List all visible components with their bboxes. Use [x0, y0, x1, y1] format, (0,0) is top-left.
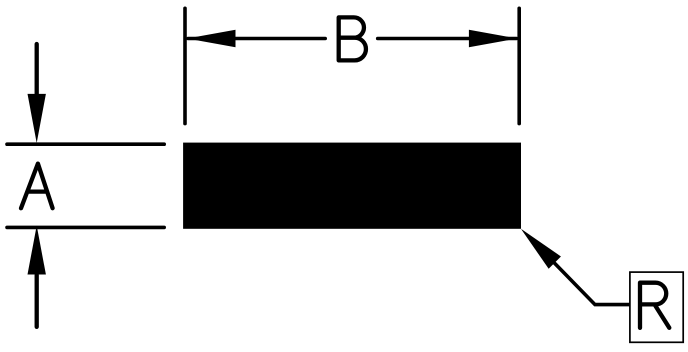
dimension A: top extension line	[7, 142, 164, 146]
leader R: arrowhead at radius corner	[521, 229, 561, 269]
label A	[21, 164, 53, 209]
dimension B: dimension line left segment	[188, 37, 325, 41]
dimension B: right arrowhead	[469, 30, 518, 47]
dimension B: left arrowhead	[187, 30, 236, 47]
dimension A: bottom arrowhead (pointing up)	[28, 226, 46, 275]
leader R: leader polyline	[531, 239, 630, 305]
label R	[640, 283, 669, 328]
dimension A: top arrow shaft	[35, 44, 39, 95]
dimension A: bottom extension line	[7, 226, 164, 230]
label box R (rectangle frame)	[630, 272, 683, 342]
bar cross-section profile (black rectangle)	[183, 143, 521, 229]
dimension A: bottom arrow shaft	[35, 275, 39, 327]
dimension B: left extension line	[183, 8, 187, 123]
dimension B: dimension line right segment	[378, 37, 517, 41]
dimension A: top arrowhead (pointing down)	[28, 94, 46, 143]
dimension B: right extension line	[517, 8, 521, 123]
label B	[339, 17, 366, 60]
